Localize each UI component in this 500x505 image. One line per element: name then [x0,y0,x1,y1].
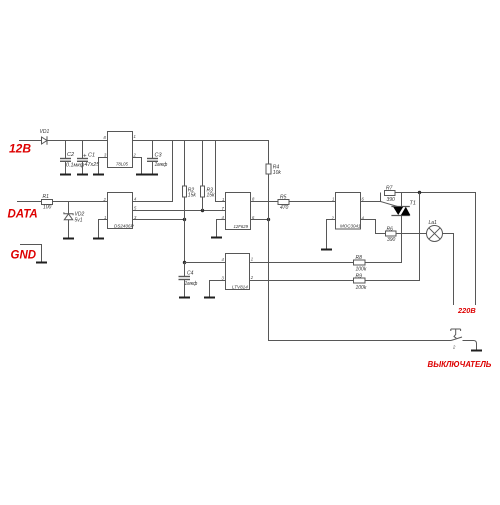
svg-text:470: 470 [280,205,289,211]
svg-text:1: 1 [251,257,253,262]
regulator U1 78L05 [108,132,133,168]
resistor R3 [202,141,204,187]
ground under MOC3041 pin2 [321,249,332,251]
IC U2 DS2406P [108,193,133,229]
ground under 78L05 pin2 [136,174,147,176]
switch SA1 actuator [451,329,461,338]
wire 78L05 pin2 to ground [133,158,142,174]
switch SA1 blade [451,337,462,341]
resistor R7 [385,191,396,196]
resistor R9 [354,278,366,283]
svg-text:R1: R1 [43,194,50,200]
svg-text:DATA: DATA [8,209,38,221]
wire LTV814 pin3 to ground [210,281,226,297]
capacitor C3 [152,141,154,159]
wire DATA input to R1 [17,201,42,203]
wire lamp to mains [443,234,454,306]
svg-text:15k: 15k [188,193,197,199]
svg-text:R6: R6 [387,226,394,232]
ground symbol GND [36,262,47,264]
svg-text:+: + [83,153,87,159]
svg-text:MOC3041: MOC3041 [340,224,361,229]
svg-text:100: 100 [43,205,52,211]
junction pin6 R4 line [267,218,270,221]
svg-text:C1: C1 [88,152,95,158]
wire switch to chassis [463,341,477,350]
wire R4 down to switch line [269,174,452,341]
svg-text:12В: 12В [9,142,31,156]
svg-text:220В: 220В [457,306,476,315]
junction R9 riser top [418,191,421,194]
svg-text:390: 390 [387,197,396,203]
wire DS2406P pin5 to 12F629 pin7 [133,210,226,212]
junction R2 bottom [183,218,186,221]
ground bar after switch [471,350,482,352]
wire MOC3041 pin6 to R7 and triac gate [361,193,381,202]
capacitor C2 [65,141,67,159]
wire LTV814 pin2 to R9 [250,280,354,282]
wire R1 to DS2406P pin2 [53,201,108,203]
wire R9 up to R7 line [365,193,420,281]
svg-text:GND: GND [11,250,37,262]
svg-text:15k: 15k [207,193,216,199]
resistor R8 [354,260,366,265]
wire diode to 78L05 input [47,140,108,142]
svg-text:1мкф: 1мкф [185,281,199,287]
junction R3 bottom [201,209,204,212]
wire C4 to LTV814 pin4 [185,262,226,264]
wire 5V rail [132,140,269,142]
svg-text:C3: C3 [155,153,163,159]
wire R5 to MOC3041 pin1 [289,201,336,203]
wire 12V input to diode [19,140,42,142]
wire 12F629 pin6 to R4 line [251,219,269,221]
wire GND to ground [20,245,42,262]
svg-text:VD1: VD1 [40,129,50,135]
svg-text:La1: La1 [429,220,438,226]
ground under DS2406P pin1 [93,238,104,240]
svg-text:100k: 100k [356,266,367,272]
resistor R5 [278,200,289,205]
ground under VD2 [63,238,74,240]
wire triac gate [381,202,398,207]
wire 12F629 pin1 to 5V rail [216,141,226,202]
ground under 78L05 pin3 [93,174,104,176]
svg-text:47х25: 47х25 [85,162,101,168]
zener diode VD2 [68,202,70,214]
svg-text:R7: R7 [386,186,393,192]
svg-text:1мкф: 1мкф [155,162,169,168]
svg-text:R5: R5 [280,195,287,201]
svg-text:C4: C4 [187,271,194,277]
svg-text:T1: T1 [410,201,416,207]
wire LTV814 pin1 to R8 [250,262,354,264]
svg-text:1: 1 [134,134,136,139]
svg-text:5v1: 5v1 [75,218,83,224]
IC U3 12F629 [226,193,251,230]
svg-text:R8: R8 [356,255,363,261]
svg-text:DS2406P: DS2406P [114,224,135,229]
IC U5 LTV814 [226,254,250,290]
svg-text:C2: C2 [67,152,74,158]
wire MOC3041 pin4 to R6 [361,220,386,234]
resistor R1 [42,200,53,205]
triac T1 [401,193,403,207]
svg-text:78L05: 78L05 [116,161,129,166]
ground under C2 [60,174,71,176]
svg-text:ВЫКЛЮЧАТЕЛЬ: ВЫКЛЮЧАТЕЛЬ [428,360,492,369]
svg-text:LTV814: LTV814 [232,284,248,289]
capacitor C1 [82,141,84,159]
svg-text:12F629: 12F629 [234,224,249,229]
svg-text:390: 390 [387,237,396,243]
IC U4 MOC3041 [336,193,361,230]
ground under 12F629 pin4 [211,237,222,239]
ground under LTV814 pin3 [204,297,215,299]
wire 78L05 pin3 to ground [99,158,108,174]
wire DS2406P pin1 to ground [99,220,108,238]
svg-text:100k: 100k [356,285,367,291]
lamp La1 [427,226,443,242]
resistor R6 [386,231,397,236]
ground under C4 [179,297,190,299]
wire R8 to triac bottom [365,262,402,264]
svg-text:1: 1 [332,197,334,202]
resistor R4 [268,141,270,165]
svg-text:0.1мкф: 0.1мкф [66,162,85,168]
diode VD1 [42,136,48,145]
svg-text:R9: R9 [356,274,363,280]
wire 12F629 pin8 to R5 [251,201,279,203]
wire DS2406P pin3 to R2 bottom [133,219,185,221]
capacitor C4 [183,261,186,264]
ground under C3 [147,174,158,176]
wire 12F629 pin4 to ground [217,220,226,237]
wire MOC3041 pin2 to ground [327,220,336,249]
resistor R2 [184,141,186,187]
svg-text:10k: 10k [273,170,282,176]
wire R6 to lamp [396,233,427,235]
wire DS2406P pin4 to 5V rail [133,141,173,202]
wire R7 to mains corner [395,193,476,306]
ground under C1 [77,174,88,176]
